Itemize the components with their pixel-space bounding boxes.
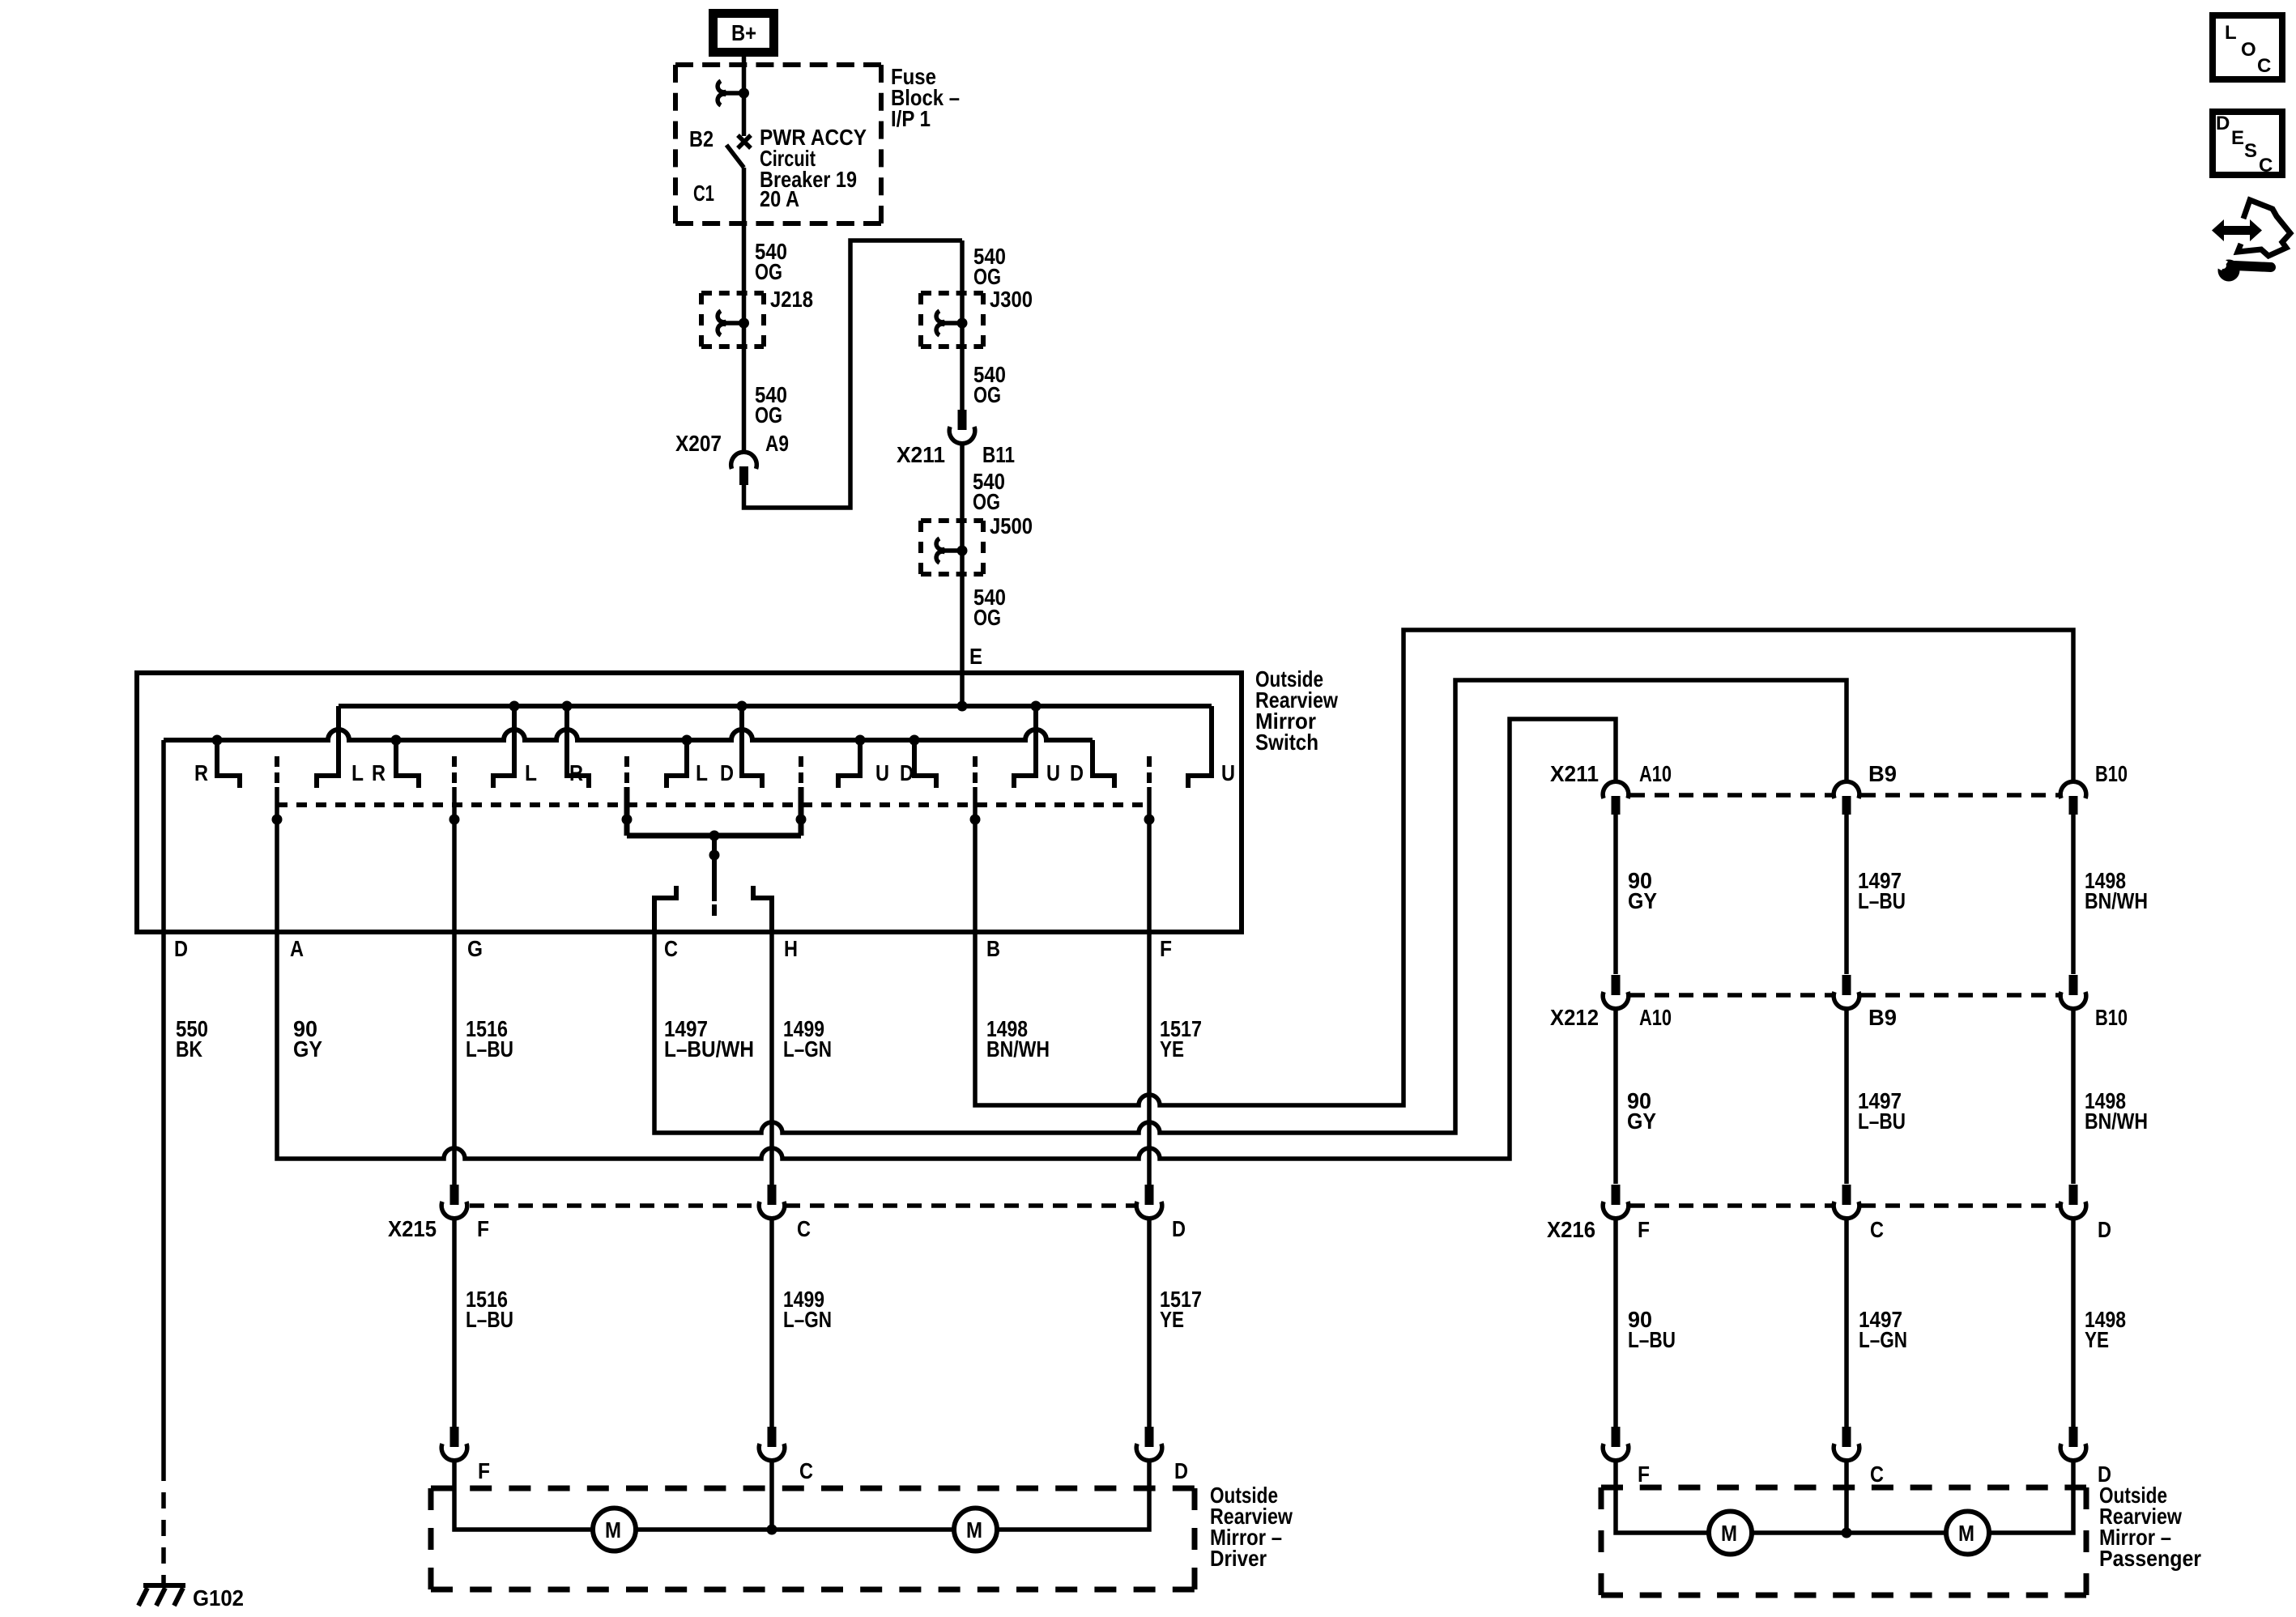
selector bracket joining pole3/pole4 blades [627, 787, 801, 836]
svg-text:L–BU/WH: L–BU/WH [664, 1036, 754, 1062]
label Fuse Block - I/P 1 [891, 64, 960, 131]
wire label 540 OG below X211 [973, 469, 1005, 514]
wire 1498 BN/WH X211 to X212 [2071, 813, 2076, 974]
svg-text:D: D [1174, 1458, 1188, 1483]
labels X212 A10 B9 B10 [1550, 1005, 2128, 1030]
svg-text:OG: OG [973, 605, 1001, 630]
driver mirror pin letters [478, 1458, 1188, 1483]
svg-text:Passenger: Passenger [2099, 1546, 2201, 1571]
label X211 / pin B11 [897, 442, 1015, 467]
svg-text:C: C [799, 1458, 813, 1483]
svg-text:J218: J218 [770, 287, 813, 312]
switch blade pole6 (pin F) [1147, 756, 1152, 787]
svg-text:B: B [986, 936, 1000, 961]
svg-text:C: C [797, 1216, 811, 1241]
label Outside Rearview Mirror Switch [1255, 666, 1338, 755]
svg-text:I/P 1: I/P 1 [891, 106, 931, 131]
outside rearview mirror passenger box [1601, 1485, 2086, 1491]
splice J500 dashed box [921, 518, 983, 523]
wire 90 GY X211 to X212 [1613, 813, 1618, 974]
svg-text:Driver: Driver [1210, 1546, 1267, 1571]
connector X211 pin B9 [1834, 781, 1859, 815]
wire label 540 OG right branch top [973, 244, 1006, 289]
wire 1499 L-GN pin H to X215 C [769, 932, 774, 1187]
wire label 550 BK [176, 1016, 208, 1062]
svg-text:A: A [290, 936, 304, 961]
junction at fuse element [739, 88, 749, 99]
svg-text:B9: B9 [1868, 761, 1897, 786]
selector stem dashed tail [712, 904, 717, 916]
svg-text:L: L [525, 760, 537, 785]
svg-text:YE: YE [1160, 1307, 1184, 1332]
switch blade pole3 [624, 756, 629, 787]
labels X216 F C D [1547, 1217, 2111, 1242]
svg-text:U: U [1221, 760, 1235, 785]
circuit breaker contact X and blade [726, 135, 751, 168]
power mirror icon: double arrow [2212, 219, 2262, 241]
contact prong pin C [654, 886, 676, 932]
power mirror icon: wrench [2210, 255, 2271, 282]
fuse block dashed box [675, 62, 881, 67]
connector X216 pin C [1834, 1185, 1859, 1219]
switch contact D pole5 [914, 740, 936, 788]
driver mirror pin F connector [441, 1427, 467, 1461]
wire 1497 L-BU X212 to X216 [1844, 1008, 1849, 1184]
contact prong pin H [753, 886, 772, 932]
svg-text:OG: OG [755, 402, 782, 428]
svg-text:G102: G102 [193, 1585, 244, 1611]
connector X215 pin C [759, 1185, 785, 1219]
svg-text:A10: A10 [1639, 761, 1672, 786]
svg-text:L: L [696, 760, 708, 785]
svg-text:M: M [1958, 1521, 1974, 1546]
svg-text:D: D [174, 936, 188, 961]
switch contact D pole6 [1093, 740, 1114, 788]
connector X211 row dashed [1630, 793, 2059, 798]
wire label 1498 BN/WH [986, 1016, 1050, 1062]
label X207 / pin A9 [675, 431, 789, 456]
svg-text:L–GN: L–GN [1859, 1327, 1907, 1352]
wire label 1499 L-GN [783, 1016, 832, 1062]
svg-text:L–GN: L–GN [783, 1307, 832, 1332]
DESC hotlink box [2213, 112, 2282, 177]
svg-text:E: E [969, 644, 982, 669]
wire 1497 L-BU X211 to X212 [1844, 813, 1849, 974]
label Outside Rearview Mirror - Passenger [2099, 1483, 2201, 1571]
wire 1517 YE X215 to mirror [1147, 1218, 1152, 1429]
connector X211 pin B11 [949, 410, 975, 444]
svg-text:20 A: 20 A [760, 186, 799, 211]
svg-text:D: D [2098, 1217, 2111, 1242]
passenger mirror internal wires [1616, 1460, 2073, 1533]
svg-text:F: F [478, 1458, 490, 1483]
svg-text:M: M [605, 1517, 621, 1543]
wire label 1497 L-BU/WH [664, 1016, 754, 1062]
connector X215 pin D [1136, 1185, 1162, 1219]
svg-text:U: U [1046, 760, 1060, 785]
label PWR ACCY Circuit Breaker 19 20 A [760, 125, 867, 211]
motor M passenger left/right [1709, 1512, 1752, 1555]
svg-text:D: D [2216, 113, 2230, 134]
power symbol B+ [714, 14, 774, 53]
svg-text:L–BU: L–BU [466, 1036, 513, 1062]
svg-text:R: R [194, 760, 208, 785]
switch contact L pole4 [667, 740, 687, 788]
labels X211 A10 B9 B10 [1550, 761, 2128, 786]
svg-text:OG: OG [755, 259, 782, 284]
svg-text:D: D [720, 760, 734, 785]
passenger mirror pin F connector [1603, 1427, 1629, 1461]
svg-text:YE: YE [2085, 1327, 2109, 1352]
wire 1499 L-GN X215 to mirror [769, 1218, 774, 1429]
svg-text:C: C [2257, 55, 2271, 77]
svg-text:G: G [467, 936, 483, 961]
wire 1498 BN/WH X212 to X216 [2071, 1008, 2076, 1184]
svg-text:B10: B10 [2095, 761, 2128, 786]
svg-text:L–BU: L–BU [1628, 1327, 1676, 1352]
wire through J300 [960, 240, 965, 412]
wire label 540 OG below J300 [973, 362, 1006, 407]
switch inner bus main with hops [164, 730, 1093, 740]
wire label 540 OG below J218 [755, 382, 787, 428]
passenger mirror pin D connector [2060, 1427, 2086, 1461]
splice J300 dashed box [921, 291, 983, 296]
switch contact R pole3 [567, 706, 589, 788]
bus junctions [509, 701, 520, 712]
splice J218 dashed box [701, 291, 764, 296]
svg-text:C: C [664, 936, 678, 961]
svg-text:X211: X211 [897, 442, 945, 467]
connector X216 pin D [2060, 1185, 2086, 1219]
svg-text:B10: B10 [2095, 1005, 2128, 1030]
svg-text:D: D [1070, 760, 1084, 785]
svg-text:F: F [1160, 936, 1172, 961]
svg-text:GY: GY [1627, 1108, 1656, 1134]
svg-text:C: C [1870, 1217, 1884, 1242]
label Outside Rearview Mirror - Driver [1210, 1483, 1293, 1571]
driver mirror internal wires [454, 1460, 1149, 1530]
wire 1498 BN/WH pin B to X211 B10 [975, 630, 2073, 1105]
switch pin letters D A G C H B F [174, 936, 1172, 961]
svg-text:E: E [2231, 127, 2244, 149]
svg-text:C: C [2259, 155, 2273, 177]
switch inner bus upper [339, 704, 1212, 709]
svg-text:F: F [1638, 1217, 1650, 1242]
switch mechanical link dashed line [277, 802, 1149, 807]
svg-text:L: L [351, 760, 364, 785]
svg-text:GY: GY [1628, 888, 1657, 913]
connector X212 pin A10 [1603, 975, 1629, 1009]
svg-text:D: D [1172, 1216, 1186, 1241]
connector X216 pin F [1603, 1185, 1629, 1219]
svg-text:M: M [1721, 1521, 1737, 1546]
svg-text:R: R [372, 760, 386, 785]
svg-text:OG: OG [973, 489, 1000, 514]
svg-text:Switch: Switch [1255, 730, 1318, 755]
svg-text:C1: C1 [693, 181, 714, 206]
svg-text:L–BU: L–BU [1858, 1108, 1906, 1134]
wire 90 GY pin A to X211 A10 [277, 719, 1616, 1159]
svg-text:L–GN: L–GN [783, 1036, 832, 1062]
switch contact U pole5 [838, 740, 860, 788]
svg-text:BK: BK [176, 1036, 202, 1062]
wire 1497 L-GN X216 to mirror [1844, 1218, 1849, 1429]
wire label 1516 L-BU [466, 1016, 513, 1062]
wire 1516 L-BU pin G to X215 F [452, 787, 457, 1187]
svg-text:YE: YE [1160, 1036, 1184, 1062]
splice J218 element [718, 311, 743, 335]
wire label 540 OG [755, 239, 787, 284]
connector X211 pin A10 [1603, 781, 1629, 815]
switch contact R pole2 [396, 740, 419, 788]
connector X212 pin B9 [1834, 975, 1859, 1009]
switch contact L pole2 [317, 706, 339, 788]
svg-text:L: L [2225, 22, 2237, 44]
wire 90 GY X212 to X216 [1613, 1008, 1618, 1184]
wire 550 BK pin D to ground [161, 740, 166, 1465]
connector X215 dashed line [470, 1203, 1135, 1208]
wire 540 OG breaker to X207 [742, 168, 747, 451]
svg-text:R: R [569, 760, 583, 785]
svg-text:A10: A10 [1639, 1005, 1672, 1030]
splice J300 element [936, 311, 962, 335]
wire label 90 GY [293, 1016, 322, 1062]
svg-text:BN/WH: BN/WH [2085, 1108, 2148, 1134]
fuse element symbol in fuse block [718, 81, 743, 105]
switch contact D pole4 [742, 706, 762, 788]
outside rearview mirror switch box [137, 673, 1242, 932]
wire label 540 OG below J500 [973, 585, 1006, 630]
selector center stem [712, 836, 717, 901]
svg-text:B+: B+ [731, 20, 756, 45]
wire 1517 YE pin F to X215 D [1147, 787, 1152, 1187]
svg-text:OG: OG [973, 264, 1001, 289]
switch contact U pole6 [1014, 706, 1036, 788]
switch blade pole1 (pin A) [275, 756, 279, 787]
connector X207 pin A9 [731, 452, 757, 485]
switch contact L pole3 [493, 706, 514, 788]
switch contact U pole7 [1188, 706, 1212, 788]
outside rearview mirror driver box [431, 1486, 1195, 1491]
switch blade pole5 (pin B) [973, 756, 978, 787]
svg-text:X215: X215 [388, 1216, 437, 1241]
svg-text:OG: OG [973, 382, 1001, 407]
wire 90 L-BU X216 to mirror [1613, 1218, 1618, 1429]
svg-text:BN/WH: BN/WH [2085, 888, 2148, 913]
svg-text:F: F [477, 1216, 489, 1241]
switch blade pole2 (pin G) [452, 756, 457, 787]
switch blade pole4 [799, 756, 803, 787]
driver mirror pin D connector [1136, 1427, 1162, 1461]
connector X215 pin F [441, 1185, 467, 1219]
svg-text:J500: J500 [990, 513, 1033, 538]
switch contact R pole1 [217, 740, 240, 788]
ground G102 [138, 1585, 185, 1606]
svg-text:L–BU: L–BU [466, 1307, 513, 1332]
wire label 1517 YE [1160, 1016, 1202, 1062]
svg-text:M: M [966, 1517, 982, 1543]
svg-text:U: U [875, 760, 889, 785]
svg-text:B9: B9 [1868, 1005, 1897, 1030]
connector X212 row dashed [1630, 993, 2059, 998]
passenger mirror pin letters [1638, 1462, 2111, 1487]
driver mirror pin C connector [759, 1427, 785, 1461]
wire from B+ into fuse block [742, 57, 747, 136]
svg-text:F: F [1638, 1462, 1650, 1487]
connector X216 row dashed [1630, 1203, 2059, 1208]
wire X207 jog to right branch [744, 240, 963, 508]
svg-text:X207: X207 [675, 431, 722, 456]
svg-text:O: O [2241, 39, 2256, 61]
wire X211 to switch pin E [960, 443, 965, 706]
connector X211 pin B10 [2060, 781, 2086, 815]
power mirror icon: mirror outline [2238, 200, 2290, 256]
svg-text:A9: A9 [765, 431, 789, 456]
svg-text:L–BU: L–BU [1858, 888, 1906, 913]
svg-text:D: D [900, 760, 914, 785]
svg-text:X211: X211 [1550, 761, 1599, 786]
svg-text:GY: GY [293, 1036, 322, 1062]
passenger mirror pin C connector [1834, 1427, 1859, 1461]
wire 1497 L-BU/WH pin C to X211 B9 [654, 680, 1847, 1133]
wire 1498 YE X216 to mirror [2071, 1218, 2076, 1429]
svg-text:H: H [784, 936, 798, 961]
svg-text:B2: B2 [689, 126, 714, 151]
motor M driver left/right [593, 1508, 636, 1551]
svg-text:B11: B11 [982, 442, 1015, 467]
LOC hotlink box [2213, 15, 2282, 79]
svg-text:X212: X212 [1550, 1005, 1599, 1030]
svg-text:BN/WH: BN/WH [986, 1036, 1050, 1062]
connector X212 pin B10 [2060, 975, 2086, 1009]
switch contact letters [194, 760, 1235, 785]
labels X215 F C D [388, 1216, 1186, 1241]
wire 1516 L-BU X215 to mirror [452, 1218, 457, 1429]
splice J500 element [936, 538, 962, 563]
svg-text:X216: X216 [1547, 1217, 1595, 1242]
svg-text:J300: J300 [990, 287, 1033, 312]
svg-text:C: C [1870, 1462, 1884, 1487]
blade junction dots [272, 815, 283, 825]
svg-text:S: S [2244, 140, 2257, 162]
